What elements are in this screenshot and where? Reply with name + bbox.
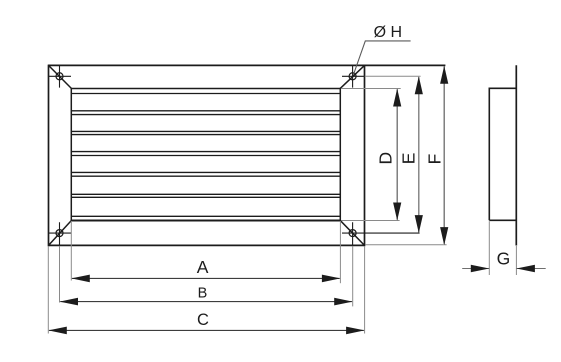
E top extension xyxy=(365,75,421,77)
svg-text:Ø H: Ø H xyxy=(374,24,402,41)
mounting hole bottom-right xyxy=(349,230,356,237)
mounting hole top-right xyxy=(349,73,356,80)
svg-text:E: E xyxy=(399,153,419,165)
corner chamfer bottom-right xyxy=(340,220,364,245)
bottom extension lines (gray) xyxy=(48,221,364,334)
arrowheads A xyxy=(71,275,340,283)
svg-text:A: A xyxy=(197,257,209,277)
C left extension xyxy=(47,246,49,333)
inner opening bottom edge (thick) xyxy=(71,219,340,221)
arrowheads D xyxy=(393,89,401,221)
side view flange line xyxy=(515,65,517,245)
inner louver opening rect xyxy=(71,89,340,221)
hole diameter leader line xyxy=(354,41,411,75)
arrowheads C xyxy=(48,327,364,335)
dimension line E xyxy=(418,77,420,232)
dimension line F xyxy=(443,66,445,244)
corner chamfer top-right xyxy=(340,65,364,88)
A left extension xyxy=(70,221,72,281)
B right extension xyxy=(352,246,354,307)
svg-text:B: B xyxy=(198,285,208,301)
dimension line B xyxy=(60,301,352,303)
crosshair top-left xyxy=(48,65,71,87)
outer frame left edge xyxy=(48,65,50,247)
F bottom extension xyxy=(365,244,446,246)
crosshair bottom-left xyxy=(49,222,72,245)
mounting hole top-left xyxy=(56,73,63,80)
svg-text:C: C xyxy=(197,311,209,329)
dimension line C xyxy=(49,329,364,331)
crosshair bottom-right (horizontal doubles as E bottom extension) xyxy=(342,222,420,245)
side view body (left, top, bottom edges) xyxy=(489,88,516,220)
crosshair top-right xyxy=(342,65,364,87)
dimension line A xyxy=(72,277,340,279)
C right extension xyxy=(364,246,366,333)
corner chamfer top-left xyxy=(49,65,72,88)
G dimension line (outside arrows) xyxy=(462,268,546,270)
outer frame top edge (extends right as F extension) xyxy=(48,64,445,66)
corner chamfer bottom-left xyxy=(49,220,72,245)
A right extension xyxy=(339,221,341,283)
G extension lines xyxy=(489,221,516,275)
arrowheads B xyxy=(60,298,353,306)
arrowheads E xyxy=(415,76,423,233)
D top extension xyxy=(342,88,401,90)
extension lines right side (gray) xyxy=(342,76,447,244)
louver slat lines xyxy=(71,94,340,217)
outer frame right edge xyxy=(364,65,366,247)
mounting hole bottom-left xyxy=(56,230,63,237)
svg-text:D: D xyxy=(376,152,396,165)
dimension line D xyxy=(396,89,398,219)
svg-text:G: G xyxy=(497,249,511,269)
G arrowheads pointing inward xyxy=(471,265,535,273)
outer frame bottom edge xyxy=(48,244,365,246)
arrowheads F xyxy=(440,66,448,245)
B left extension xyxy=(59,246,61,303)
D bottom extension xyxy=(342,220,400,222)
svg-text:F: F xyxy=(425,154,445,165)
